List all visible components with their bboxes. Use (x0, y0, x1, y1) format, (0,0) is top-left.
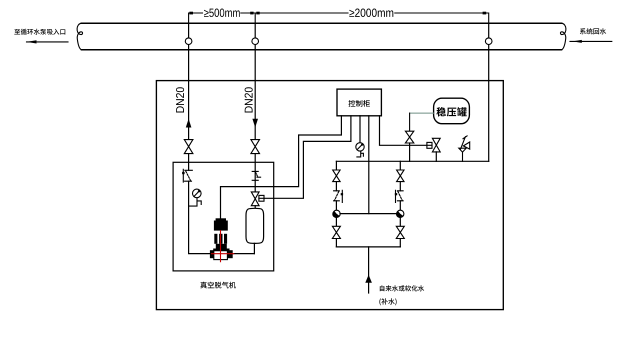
outer equipment boundary box (156, 81, 503, 310)
label: vacuum degasser (200, 282, 236, 289)
wire: left riser down and bottom run to pump (189, 181, 255, 253)
dimension arrow right of 2000mm (483, 12, 487, 15)
valve B4 (right branch bottom) (396, 226, 404, 232)
wire: main pipe top line (82, 22, 562, 24)
control wire B (cabinet to solenoid SV1) (264, 116, 351, 199)
solenoid valve SV2 (makeup inlet) (432, 138, 440, 145)
node: tap circle 1 (185, 38, 192, 45)
valve B1 (left branch top) (333, 170, 340, 176)
pressure stabilizing tank (rounded box) (434, 98, 470, 124)
label: control cabinet (349, 100, 370, 107)
flow arrow up on line 1 (186, 119, 192, 128)
dimension line 2000mm (255, 13, 489, 23)
dimension arrow left of 500mm (189, 12, 193, 15)
control wire E (cabinet to solenoid SV2) (380, 116, 427, 146)
check valve S4 (right branch) (395, 190, 403, 202)
water meter M2 (397, 210, 404, 217)
valve V3 (pressure tank line) (405, 131, 413, 137)
dimension text >=2000mm (349, 9, 393, 18)
wire: tank outlet down to pump suction (253, 243, 255, 253)
node: tap circle 2 (252, 38, 259, 45)
pressure gauge G2 (on makeup manifold) (356, 143, 364, 157)
safety valve (459, 136, 470, 161)
wire: SV1 to tank top (254, 206, 256, 209)
degassing tank (246, 208, 264, 243)
control wire D (cabinet to meters) (368, 116, 370, 214)
label: to circulating pump suction inlet (14, 29, 65, 35)
valve V2 on line 2 (251, 140, 260, 147)
control wire A (cabinet to pump motor) (221, 116, 342, 219)
valve B2 (right branch top) (397, 170, 404, 176)
label: system return water (580, 28, 606, 34)
wire: DN20 drop line 2 upper (254, 23, 256, 139)
valve B3 (left branch bottom) (332, 226, 340, 232)
wire: right makeup branch (399, 161, 401, 247)
label: (makeup water) (379, 298, 396, 305)
wire: meter connector line (340, 213, 397, 215)
pressure gauge G1 (189, 189, 202, 206)
dimension arrow left of 2000mm (256, 12, 259, 15)
check valve S3 (left branch) (334, 190, 344, 202)
label DN20 (line 2) (245, 87, 253, 112)
wire: line1 valve to check symbol (188, 154, 190, 171)
wire: left makeup branch (335, 161, 337, 247)
wire: makeup supply line (368, 247, 370, 293)
leader line from pressure tank (410, 112, 434, 114)
vacuum pump (vertical multistage) (210, 218, 233, 258)
pipe break symbol right (560, 23, 565, 50)
control wire C (cabinet to pressure sensor) (359, 116, 361, 143)
dimension text >=500mm (204, 9, 240, 18)
wire: drop line 3 (expansion connection) (488, 23, 490, 161)
pump power wire joint (220, 217, 222, 220)
wire: bottom makeup header (336, 246, 400, 248)
solenoid valve SV1 (tank inlet) (251, 192, 259, 199)
pipe break symbol left (77, 23, 82, 50)
label: tap water or softened water (380, 285, 424, 291)
flow arrow up on supply (365, 275, 372, 283)
node: tap circle 3 (485, 38, 492, 45)
leader line with arrow (right label) (570, 40, 612, 42)
valve V1 on line 1 (184, 140, 193, 147)
wire: DN20 drop line 1 upper (188, 23, 190, 139)
wire: line2 valve down to solenoid valve (254, 154, 256, 192)
leader line with arrow (left label) (27, 41, 69, 43)
water meter M1 (333, 210, 340, 217)
pump red centerlines (220, 231, 222, 262)
wire: main pipe bottom line (82, 49, 562, 51)
dimension line 500mm (189, 13, 256, 23)
check valve S1 on line 1 (182, 169, 192, 182)
wire: makeup manifold (336, 160, 488, 162)
control cabinet box (337, 89, 381, 116)
dimension arrow right of 500mm (250, 12, 253, 15)
flow arrow down on line 2 (252, 119, 258, 128)
vacuum degasser unit box (173, 162, 274, 271)
label DN20 (line 1) (176, 87, 184, 112)
label: pressure tank (436, 107, 466, 117)
check valve S2 on line 2 (252, 171, 260, 180)
